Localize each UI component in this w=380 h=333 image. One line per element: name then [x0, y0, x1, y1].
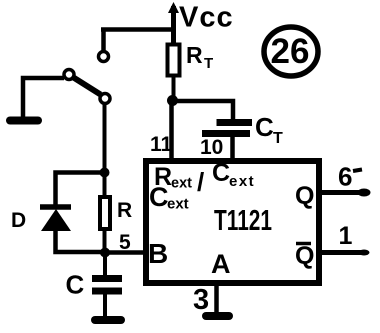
wire node B to pin B [105, 250, 146, 255]
junction dot node Rext [167, 95, 178, 106]
pin label Qbar [295, 242, 314, 270]
svg-text:C: C [66, 270, 85, 300]
junction dot node B [100, 248, 110, 258]
svg-text:3: 3 [193, 284, 209, 316]
svg-text:C: C [149, 182, 169, 212]
switch arm [74, 78, 101, 95]
svg-text:T: T [273, 130, 283, 147]
svg-text:D: D [11, 209, 26, 232]
diode D [40, 207, 71, 231]
ground (C) [95, 316, 121, 324]
svg-text:B: B [148, 238, 168, 269]
wire switch upper contact to Vcc rail [101, 27, 176, 32]
svg-text:Vcc: Vcc [179, 2, 234, 34]
svg-text:T1121: T1121 [214, 205, 272, 237]
pin label Cext line 2 [149, 182, 189, 213]
wire output Q [322, 189, 371, 197]
svg-text:10: 10 [200, 136, 223, 159]
svg-text:1: 1 [339, 222, 353, 250]
switch pole contact [64, 70, 74, 80]
label CT [255, 112, 283, 147]
label RT [186, 42, 213, 72]
switch upper contact [99, 29, 109, 62]
svg-text:/: / [197, 167, 204, 197]
ground (switch) [10, 117, 38, 125]
pin label Rext/Cext line 1 [154, 159, 255, 197]
IC U1 T1121 body [146, 161, 319, 283]
svg-text:Q: Q [295, 242, 314, 270]
svg-text:R: R [186, 42, 203, 68]
label 6 [338, 162, 362, 192]
svg-text:T: T [204, 55, 213, 72]
svg-text:A: A [211, 249, 231, 279]
resistor R [100, 172, 110, 251]
callout circle 26 [264, 27, 318, 76]
wire junction to diode [56, 173, 105, 206]
Vcc terminal arrow [168, 2, 179, 44]
svg-text:C: C [212, 159, 230, 187]
wire junction to pin 11 [169, 101, 174, 160]
switch lower contact [100, 94, 110, 104]
svg-text:Q: Q [295, 182, 314, 210]
wire switch pole to ground [23, 78, 64, 117]
svg-text:26: 26 [271, 32, 310, 71]
svg-text:C: C [255, 112, 274, 142]
wire diode bottom to node B [56, 230, 106, 252]
svg-text:ext: ext [171, 176, 192, 192]
resistor RT [168, 45, 180, 102]
svg-text:6: 6 [338, 162, 352, 192]
capacitor CT [202, 123, 252, 134]
wire capacitor C to ground [103, 293, 107, 316]
capacitor C [92, 279, 122, 292]
svg-text:ext: ext [229, 173, 255, 190]
wire node B to capacitor C [103, 253, 107, 277]
svg-text:R: R [117, 199, 132, 222]
wire junction to capacitor CT [173, 101, 234, 120]
wire output Qbar [322, 250, 370, 256]
svg-text:11: 11 [150, 133, 173, 156]
ground (pin 3) [206, 312, 229, 320]
wire CT to pin 10 [230, 135, 235, 160]
wire pin 3 [214, 285, 219, 313]
junction dot node D/R [100, 168, 110, 178]
svg-text:ext: ext [167, 196, 189, 213]
wire switch lower contact to junction [103, 104, 107, 174]
